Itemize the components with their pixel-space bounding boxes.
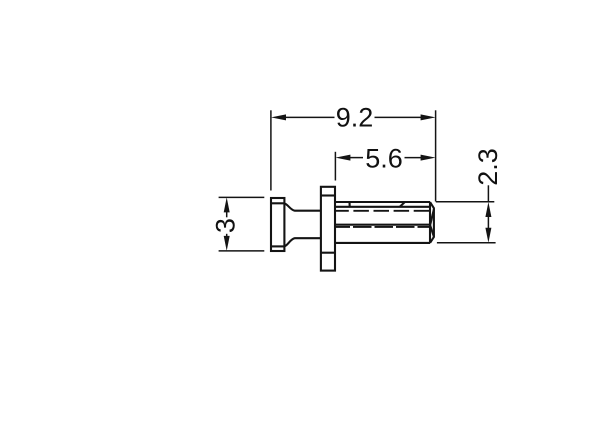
arrowhead 9.2 right <box>421 114 436 120</box>
right end chamfer outline <box>430 202 434 243</box>
dimension line 9.2 right segment <box>375 116 422 118</box>
shaft flat diagonal <box>400 202 405 207</box>
extension line right of 9.2 and 5.6 <box>435 110 437 201</box>
dimension line 3 lower segment <box>226 234 228 237</box>
arrowhead 2.3 up <box>485 202 491 217</box>
dimension line 9.2 left segment <box>286 116 335 118</box>
arrowhead 3 down <box>224 236 230 251</box>
dimension line 3 upper segment <box>226 212 228 217</box>
flange outline <box>321 187 335 271</box>
head bottom cap line <box>271 245 285 247</box>
flange bottom separator <box>321 252 335 254</box>
shaft upper flat line <box>335 206 430 208</box>
extension line top of 2.3 <box>436 201 495 203</box>
arrowhead 2.3 down <box>485 228 491 243</box>
extension line left of 5.6 <box>334 152 336 181</box>
extension line bottom of 2.3 <box>437 242 496 244</box>
flange top separator <box>321 194 335 196</box>
arrowhead 5.6 left <box>335 155 350 161</box>
hidden dashed line upper <box>335 210 430 212</box>
head outline <box>271 198 284 251</box>
right end upper fan diagonal <box>430 209 434 225</box>
extension line left of 9.2 <box>270 110 272 190</box>
dimension line 5.6 right segment <box>405 157 422 159</box>
chamfer start edge <box>429 202 431 243</box>
dimension line 5.6 left segment <box>350 157 363 159</box>
arrowhead 5.6 right <box>421 155 436 161</box>
svg-text:5.6: 5.6 <box>365 144 403 174</box>
shaft flat tick <box>348 202 350 207</box>
neck bottom profile <box>285 238 321 246</box>
shaft top line <box>335 201 430 203</box>
shaft bottom line <box>335 242 430 244</box>
shaft center solid line <box>335 224 430 226</box>
svg-text:3: 3 <box>211 218 241 233</box>
arrowhead 9.2 left <box>271 114 286 120</box>
hidden dashed line center <box>335 226 430 228</box>
neck top profile <box>285 204 321 211</box>
extension line bottom of 3 <box>219 250 265 252</box>
dimension line 2.3 upper segment <box>487 185 489 202</box>
svg-text:2.3: 2.3 <box>473 148 503 186</box>
extension line top of 3 <box>219 196 265 198</box>
arrowhead 3 up <box>224 197 230 212</box>
head top cap line <box>271 202 285 204</box>
dimension line 2.3 middle segment <box>487 217 489 229</box>
svg-text:9.2: 9.2 <box>336 102 374 132</box>
right end lower fan diagonal <box>430 225 434 237</box>
